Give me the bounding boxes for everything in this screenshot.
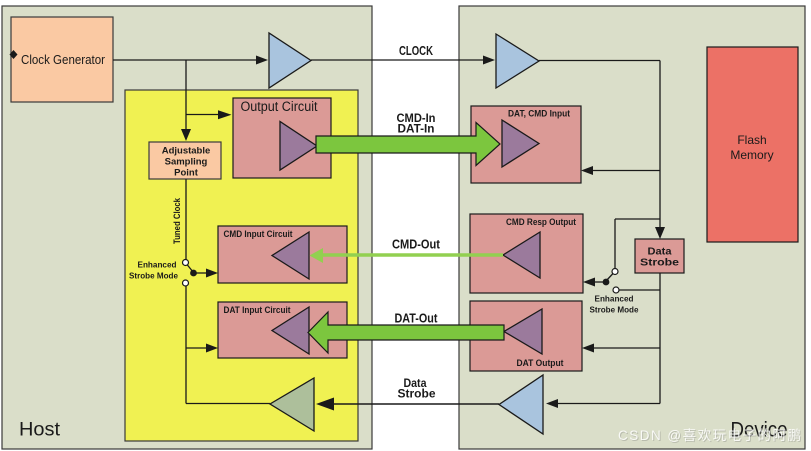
svg-text:Adjustable: Adjustable — [162, 146, 211, 157]
tuning block (yellow) — [125, 90, 358, 441]
svg-text:Flash: Flash — [737, 133, 766, 147]
device block background — [459, 6, 805, 449]
device mode switch — [590, 269, 639, 315]
svg-text:CLOCK: CLOCK — [399, 43, 433, 58]
clock generator port diamond — [10, 50, 18, 59]
device clock buffer triangle — [496, 34, 539, 88]
dat cmd input buffer triangle — [502, 120, 539, 167]
wire branch to output circuit — [186, 110, 232, 119]
svg-text:CMD Input Circuit: CMD Input Circuit — [224, 229, 294, 240]
svg-text:Strobe: Strobe — [398, 389, 436, 401]
cmd input circuit block — [218, 226, 347, 283]
wire data strobe distribution — [619, 273, 660, 404]
data strobe block — [635, 239, 684, 273]
wire clock to device switch — [615, 219, 660, 268]
svg-text:DAT-Out: DAT-Out — [395, 312, 439, 326]
svg-text:Point: Point — [174, 168, 199, 179]
cmd input buffer triangle — [272, 232, 309, 279]
arrow CMD-Out — [310, 238, 504, 264]
wire clock branch down to sampling point — [181, 60, 191, 141]
svg-text:DAT Output: DAT Output — [517, 358, 565, 369]
wire switch to cmd input circuit — [195, 269, 218, 278]
dat input circuit block — [218, 302, 347, 358]
wire clock to dat cmd input — [581, 166, 660, 175]
wire strobe buffer tip to riser — [186, 403, 270, 405]
svg-text:Sampling: Sampling — [165, 157, 208, 168]
host clock buffer triangle — [269, 33, 311, 88]
svg-text:Strobe: Strobe — [640, 258, 680, 269]
svg-text:Tuned Clock: Tuned Clock — [172, 197, 183, 244]
host strobe buffer triangle — [270, 378, 314, 431]
svg-text:CMD Resp Output: CMD Resp Output — [506, 217, 577, 228]
wire Data Strobe device to host — [316, 378, 499, 411]
clock generator block — [11, 17, 113, 102]
output circuit buffer triangle — [280, 122, 317, 171]
wire switch to cmd resp output — [583, 278, 604, 287]
svg-text:CSDN @喜欢玩电子的阿鹏: CSDN @喜欢玩电子的阿鹏 — [618, 428, 801, 443]
svg-text:Enhanced: Enhanced — [138, 260, 177, 270]
svg-text:Enhanced: Enhanced — [595, 294, 634, 304]
svg-text:Data: Data — [648, 247, 672, 258]
dat input buffer triangle — [272, 307, 309, 354]
dat cmd input block — [471, 106, 581, 183]
wire clock generator to host clock buffer — [113, 56, 268, 65]
big arrow DAT-Out — [308, 312, 504, 354]
svg-text:DAT, CMD Input: DAT, CMD Input — [508, 109, 571, 120]
wire strobe to device strobe buffer — [546, 399, 660, 408]
flash memory block — [707, 47, 798, 242]
device strobe buffer triangle — [499, 375, 543, 434]
svg-text:DAT-In: DAT-In — [398, 122, 435, 136]
label Host — [19, 420, 61, 441]
svg-text:DAT Input Circuit: DAT Input Circuit — [224, 305, 292, 316]
big arrow CMD-In DAT-In — [316, 111, 500, 166]
host mode switch — [129, 260, 197, 287]
svg-text:Memory: Memory — [730, 148, 773, 162]
wire tuned clock — [172, 179, 186, 259]
cmd resp output block — [470, 214, 583, 293]
wire strobe to dat output — [582, 344, 660, 353]
dat output buffer triangle — [504, 309, 542, 354]
adjustable sampling point block — [149, 142, 221, 179]
cmd resp output buffer triangle — [503, 232, 540, 278]
svg-text:Strobe Mode: Strobe Mode — [129, 271, 178, 281]
dat output block — [470, 301, 582, 371]
watermark — [618, 428, 802, 444]
svg-text:Strobe Mode: Strobe Mode — [590, 305, 639, 315]
host block background — [2, 6, 372, 449]
wire strobe to dat input circuit — [186, 286, 218, 404]
output circuit block — [233, 98, 331, 178]
svg-text:Host: Host — [19, 420, 61, 441]
label Device — [731, 418, 788, 442]
svg-text:Output Circuit: Output Circuit — [241, 99, 318, 114]
svg-text:CMD-Out: CMD-Out — [392, 238, 441, 252]
wire CLOCK host to device — [311, 43, 495, 65]
svg-text:Clock Generator: Clock Generator — [21, 52, 106, 67]
wire device clock distribution — [539, 61, 665, 240]
